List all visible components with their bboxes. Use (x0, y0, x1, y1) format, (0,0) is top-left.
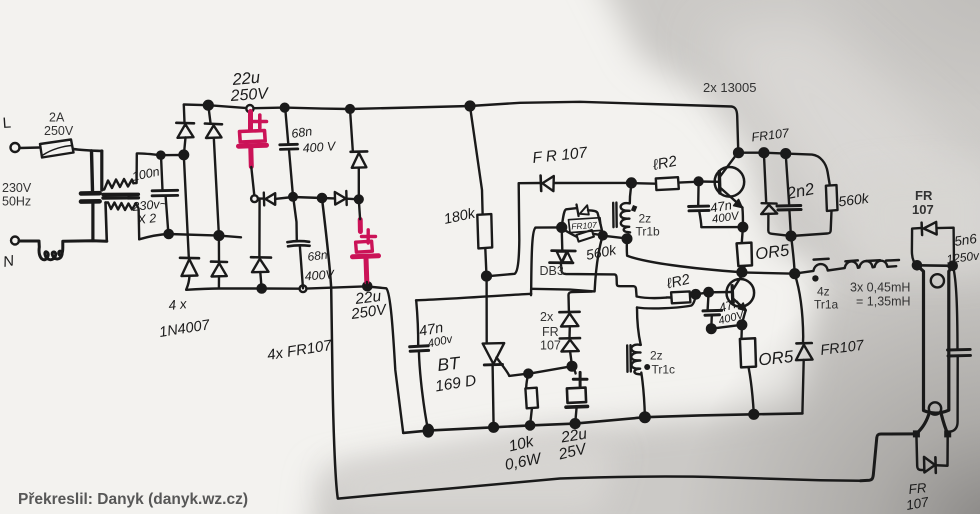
svg-text:400 V: 400 V (302, 139, 337, 155)
diode D14 FR107 (lamp top) (912, 222, 954, 266)
junction bus OR5 (749, 410, 758, 419)
wire to Tr1b base (699, 180, 719, 183)
junction bus 68n1 (289, 193, 297, 201)
wire choke bottom-right down (136, 203, 139, 239)
svg-text:250V: 250V (44, 124, 74, 138)
junction 180k bottom (482, 272, 491, 281)
diode D4 (bridge bottom-right) (211, 236, 227, 288)
resistor 560k (right) (791, 185, 837, 236)
junction Tr1b emitter (739, 223, 748, 232)
wire mid rail (742, 272, 795, 273)
junction rail 68n (281, 104, 289, 112)
wire lamp top (917, 264, 953, 267)
wire node-227 (536, 226, 562, 229)
junction R2b-47n (704, 288, 712, 296)
wire C4 bus to bottom bus (367, 287, 403, 433)
svg-text:5n6: 5n6 (953, 231, 978, 249)
thyristor Q3 BT169 (483, 343, 529, 427)
wire 180k node up to FR107 wire (487, 184, 520, 277)
wire C1 to mid bus (251, 167, 254, 195)
wire L to fuse (20, 146, 41, 149)
transistor Q1 Tr1b (715, 153, 745, 227)
wire mid bus (255, 197, 359, 199)
diac DB3 (550, 228, 667, 298)
wire fuse to choke (74, 149, 103, 151)
resistor R6 OR5 (bottom) (740, 325, 756, 414)
junction rail collector (734, 148, 743, 157)
resistor R2 (top) (632, 177, 699, 190)
capacitor C7 47n 400V (bottom) (703, 293, 742, 329)
capacitor CX2 100n plates (152, 190, 178, 196)
svg-text:L: L (2, 114, 12, 132)
resistor R5 10k (525, 374, 538, 425)
diode D7 (FR107 on bus) (335, 191, 347, 205)
svg-text:2x 13005: 2x 13005 (703, 80, 757, 95)
resistor 180k (470, 106, 492, 275)
junction bus 10k (526, 421, 534, 429)
junction lamp bottom-right (944, 430, 951, 437)
junction rail 2n2 (781, 149, 790, 158)
diode D11 FR107 (to bus) (795, 274, 813, 413)
capacitor CX1 plate top (81, 191, 100, 196)
diode cluster D9 + resistor 560k small (562, 205, 603, 242)
transformer winding 2z Tr1b (613, 183, 637, 232)
wire branch to 2xFR107 (531, 289, 594, 292)
wire BT anode (485, 276, 488, 342)
junction mid rail right (790, 269, 799, 278)
junction R2-base node (695, 178, 703, 186)
junction bus right (355, 195, 363, 203)
diodes D12 D13 2x FR107 (559, 292, 592, 366)
terminal N (11, 237, 19, 245)
junction 47nb bottom (707, 324, 716, 333)
diode D10 FR107 (761, 153, 790, 236)
wire cluster to winding (603, 236, 626, 239)
svg-text:50Hz: 50Hz (2, 195, 31, 209)
svg-text:= 1,35mH: = 1,35mH (856, 295, 911, 309)
node rail C1 (open) (246, 105, 253, 112)
svg-text:2z: 2z (639, 212, 652, 226)
junction bus Tr1c winding (640, 412, 650, 422)
svg-text:FR: FR (915, 188, 933, 203)
junction gate-10k (524, 370, 532, 378)
junction Tr1c emitter (738, 321, 747, 330)
wire C4 top lead (359, 200, 360, 220)
capacitor C6 2n2 (777, 154, 801, 236)
choke L1 bottom winding (106, 203, 136, 211)
junction bus lamp-return (318, 194, 326, 202)
diode D1 (bridge top-left) (176, 105, 194, 155)
svg-text:230V: 230V (2, 181, 32, 195)
junction gate-22u (568, 362, 577, 371)
diode D3 (bridge bottom-left) (180, 155, 199, 289)
wire node-227 down to gate branch (531, 228, 536, 295)
svg-text:X 2: X 2 (136, 211, 157, 227)
diode D15 FR107 (lamp bottom) (916, 434, 947, 473)
wire AC2 (139, 234, 241, 239)
junction 2n2 bottom node (787, 232, 796, 241)
capacitor C9 22u 25V (566, 367, 588, 424)
wire collector rail (738, 153, 830, 186)
wire choke to AC1 (133, 153, 186, 183)
wire node down to mid rail (791, 236, 795, 273)
svg-text:BT: BT (436, 353, 462, 375)
terminal L (11, 143, 20, 152)
svg-text:68n: 68n (307, 248, 329, 264)
wire down to X-cap CX1 (92, 151, 93, 191)
wire return riser to lamp (861, 434, 917, 481)
node bus 68n2 (open) (300, 285, 307, 292)
svg-text:400V: 400V (304, 267, 336, 283)
junction lamp top-left (913, 261, 921, 269)
svg-text:68n: 68n (290, 124, 313, 141)
svg-text:Tr1c: Tr1c (652, 363, 676, 377)
transformer winding 2z Tr1c (627, 295, 696, 417)
capacitor C2 68n 400V (280, 108, 298, 196)
wire BT top (416, 294, 531, 301)
junction lamp bottom-left (913, 430, 920, 437)
diode D8 FR107 (left of R2) (519, 176, 632, 192)
diode D2 (bridge top-right) (205, 105, 222, 235)
capacitor CX1 plate bottom (81, 199, 100, 204)
wire CX1 to N line (91, 203, 94, 241)
choke L1 core (103, 194, 138, 198)
svg-text:2z: 2z (650, 349, 663, 363)
svg-text:2x: 2x (540, 310, 554, 324)
wire 560k-small down to gate branch (595, 236, 603, 291)
wire CX2 top lead (161, 156, 163, 191)
svg-text:107: 107 (540, 339, 561, 353)
junction AC2a (165, 230, 173, 238)
junction mid rail Tr1c collector (738, 268, 747, 277)
svg-text:107: 107 (912, 202, 934, 217)
junction AC1 (180, 151, 189, 160)
typed labels part 1 (2, 80, 934, 508)
fuse F1 (40, 140, 74, 158)
svg-text:3x 0,45mH: 3x 0,45mH (850, 281, 910, 295)
junction bus D5 (258, 284, 266, 292)
wire lamp return (long) (322, 198, 861, 498)
junction R2b out (692, 290, 700, 298)
svg-text:4 x: 4 x (168, 296, 189, 313)
diode D5 (FR107) (251, 199, 271, 289)
wire bottom bus (bridge minus) (186, 286, 367, 290)
junction rail D2 (204, 101, 213, 110)
junction bus 47nL (424, 425, 433, 437)
wire winding to mid rail (627, 239, 742, 272)
svg-text:DB3: DB3 (540, 264, 564, 278)
capacitor C10 5n6 1250V (948, 266, 971, 433)
svg-text:FR107: FR107 (571, 220, 597, 232)
wire N with loop (19, 241, 107, 260)
wire C4 bottom stub (366, 282, 369, 286)
svg-text:FR: FR (542, 325, 559, 339)
svg-text:Překreslil: Danyk (danyk.wz.cz: Překreslil: Danyk (danyk.wz.cz) (18, 491, 248, 508)
junction node-227 (557, 223, 566, 232)
diode D6 (FR107 on bus) (264, 193, 275, 206)
junction rail 180k (466, 102, 475, 111)
transistor Q2 Tr1c (727, 273, 755, 325)
capacitor C3 68n 400V (287, 197, 309, 288)
junction AC2 (215, 231, 224, 240)
wire gate node (528, 366, 572, 374)
resistor R3 OR5 (top) (737, 227, 752, 271)
wire riser to choke bottom-left (106, 203, 107, 242)
diode D16 FR107 (rail to mid bus) (350, 109, 367, 199)
svg-text:Tr1b: Tr1b (636, 225, 661, 239)
node mid bus left (open) (251, 195, 258, 202)
choke L1 top winding (102, 179, 134, 190)
wire top rail (184, 102, 739, 153)
junction bus BT (489, 423, 498, 432)
junction AC1a (157, 152, 164, 159)
svg-text:2A: 2A (49, 111, 65, 125)
lamp tube (917, 266, 953, 434)
junction cluster right (599, 232, 607, 240)
svg-text:OR5: OR5 (757, 347, 794, 370)
junction base node Tr1b (627, 179, 636, 188)
svg-text:Tr1a: Tr1a (814, 298, 839, 312)
wire down to choke top-left (100, 151, 103, 190)
capacitor C4 22u 250V (pink) (353, 220, 379, 283)
inductor 4z Tr1a winding (795, 259, 899, 282)
junction lamp top-right (949, 262, 957, 270)
junction bus 22u (571, 419, 580, 428)
junction bus C4 (363, 282, 371, 290)
junction winding bottom (623, 234, 632, 243)
junction rail D10 (760, 148, 769, 157)
resistor R4 R2 (bottom) (667, 291, 696, 303)
svg-text:4z: 4z (817, 285, 830, 299)
wire CX2 bottom lead (166, 196, 169, 234)
wire bottom mid bus (403, 413, 802, 433)
svg-text:250V: 250V (229, 85, 270, 105)
wire to Tr1c base (696, 292, 731, 294)
capacitor C5 47n 400V (top) (689, 182, 743, 227)
junction rail D8top (346, 105, 354, 113)
capacitor C1 22u 250V (pink) (239, 112, 267, 167)
capacitor C8 47n 400V (left) (410, 300, 429, 430)
